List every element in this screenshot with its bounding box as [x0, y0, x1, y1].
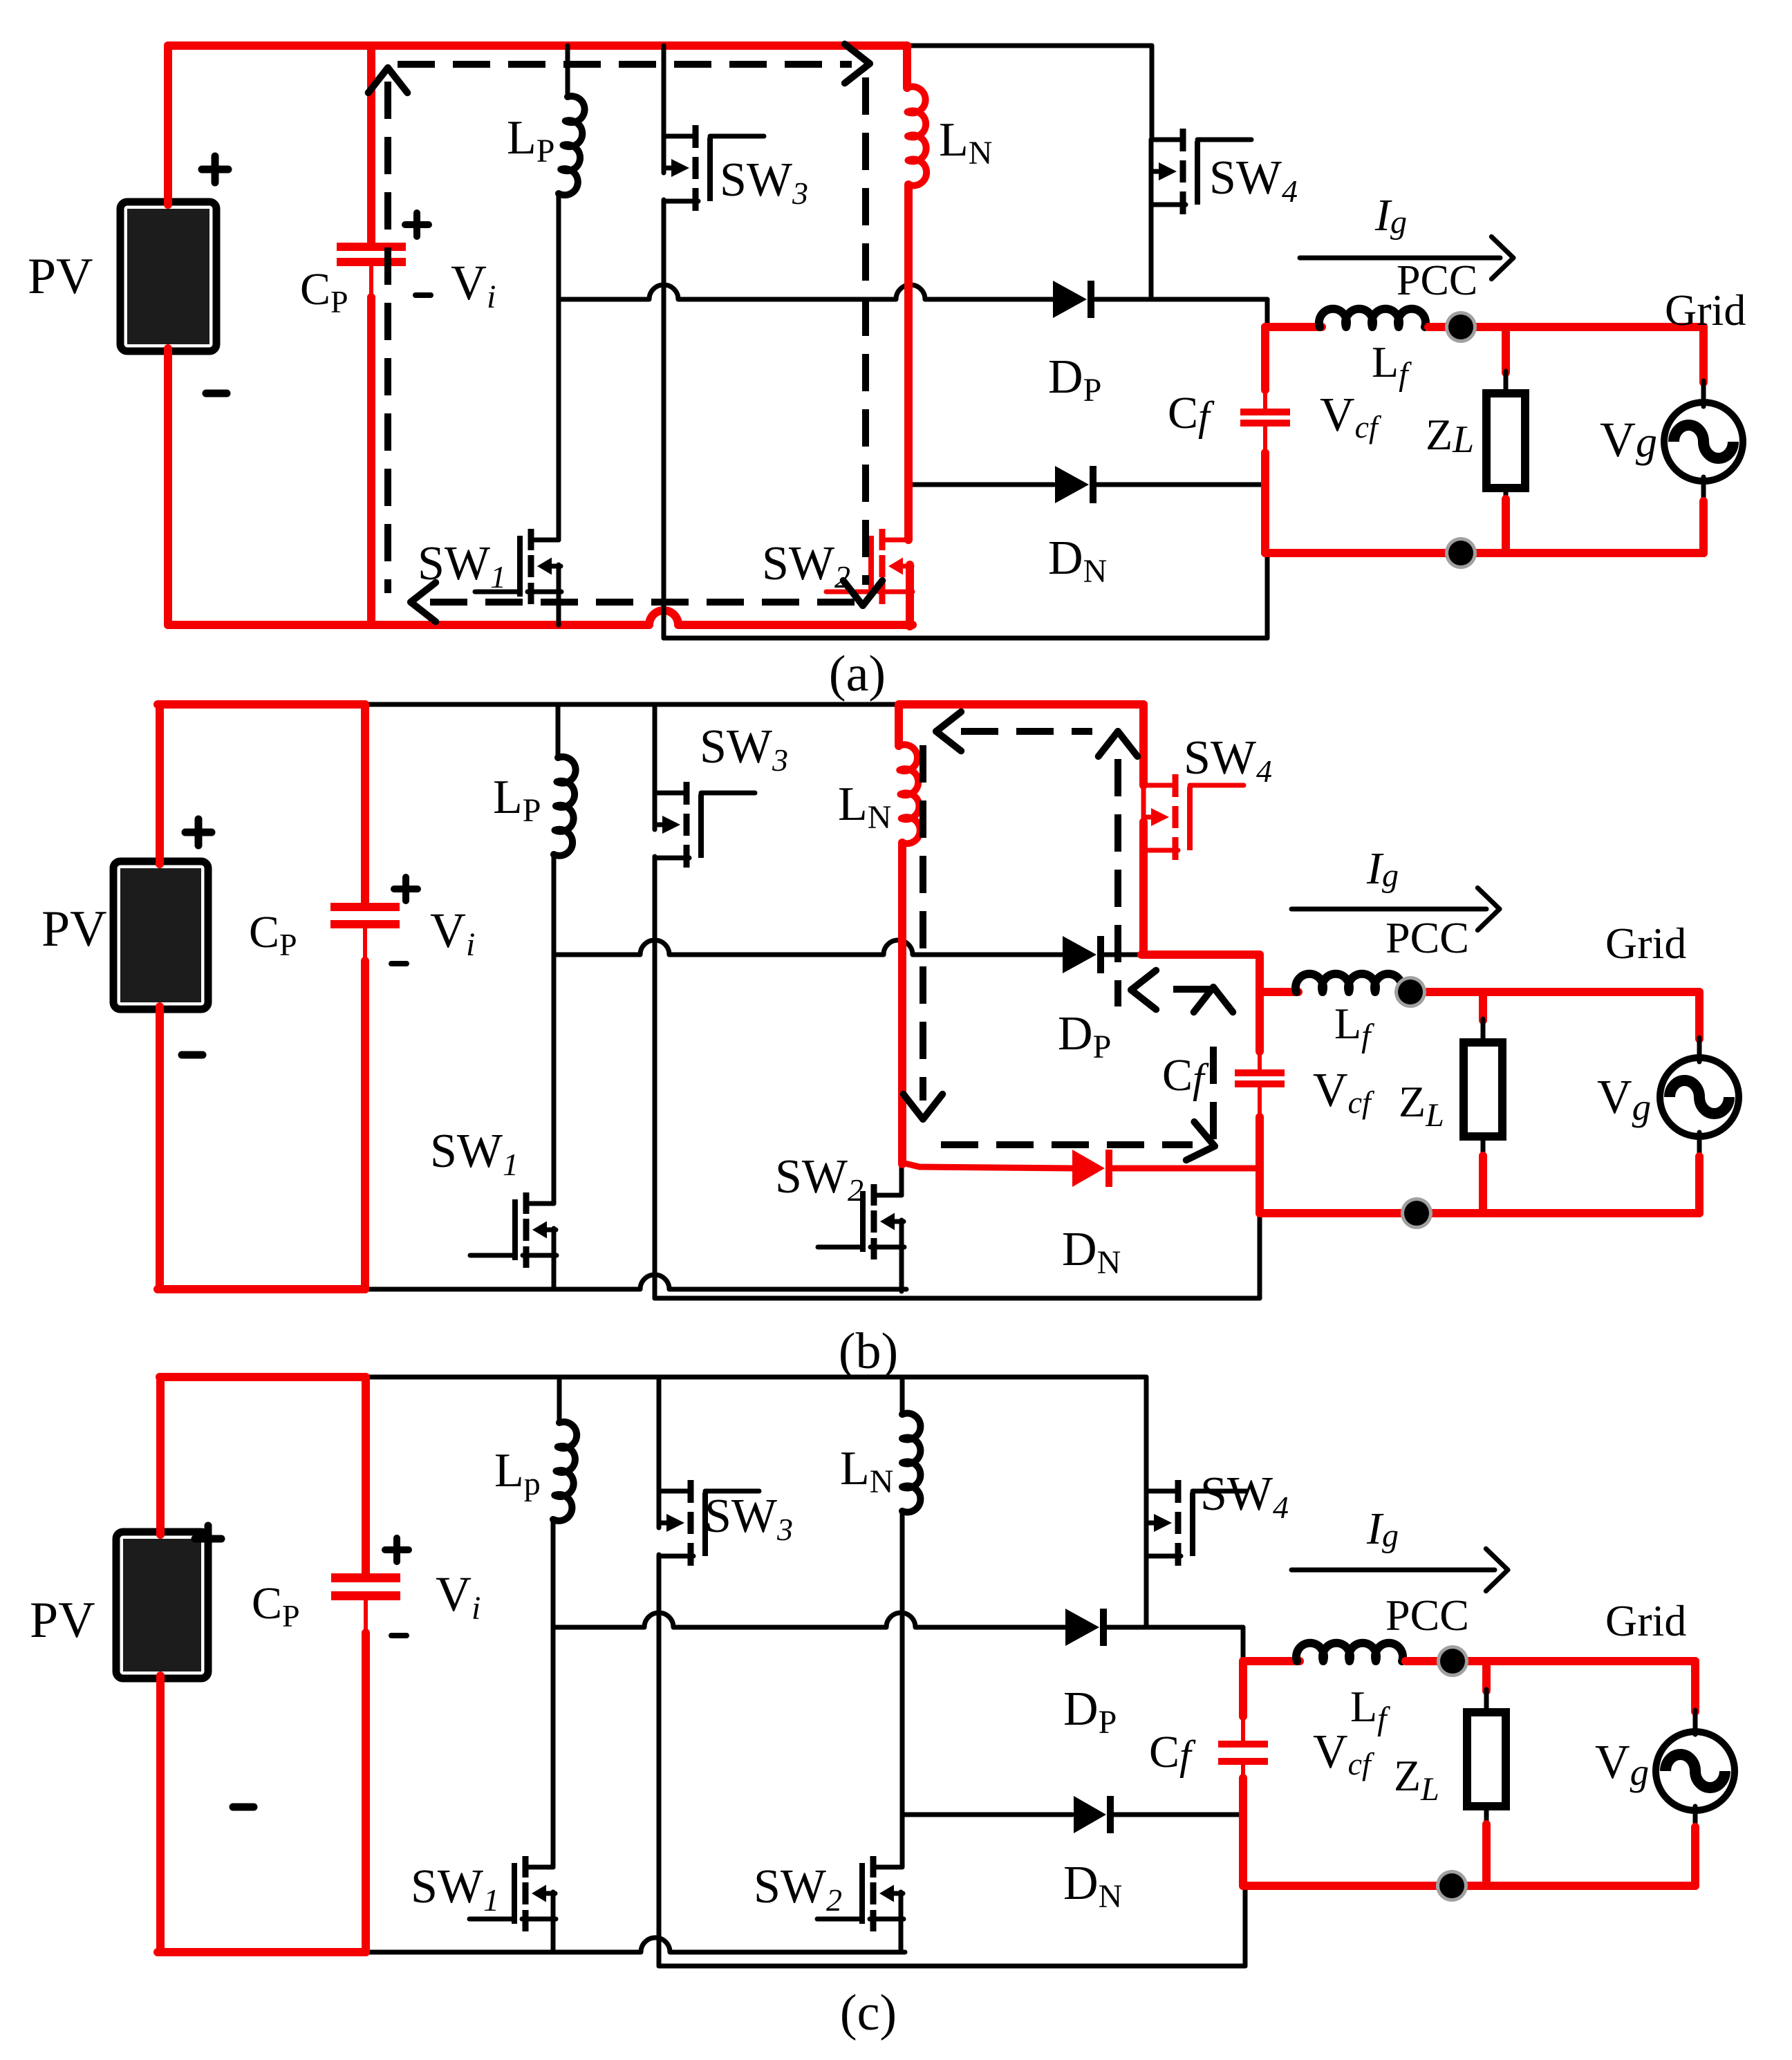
arrow Ig (b) — [1291, 907, 1486, 912]
capacitor CP (c) — [331, 1573, 400, 1582]
svg-text:Grid: Grid — [1665, 285, 1746, 335]
wire bottom loop red (b) — [1260, 1209, 1699, 1217]
capacitor CP lead lower (a) — [369, 264, 373, 299]
svg-text:Vg: Vg — [1600, 412, 1657, 467]
wire SW4 source (a) — [1149, 176, 1154, 299]
wire filter top red left (b) — [1260, 988, 1298, 996]
dashed loop left vertical (a) — [384, 82, 391, 593]
dashed arrow up right-loop (b) — [1118, 731, 1137, 756]
transistor SW1 (a) — [531, 538, 559, 543]
wire filter top red left (c) — [1243, 1657, 1300, 1665]
inductor LP (b) — [554, 757, 576, 856]
wire top rail red (c) — [160, 1373, 366, 1381]
source Vg (c) — [1656, 1732, 1735, 1810]
wire middle rail (b) — [554, 940, 1063, 955]
wire DN cathode red (b) — [1113, 1165, 1260, 1172]
wire top rail black (c) — [366, 1375, 1146, 1380]
wire SW3 source down (c) — [657, 1555, 662, 1966]
inductor Lp wire lower (c) — [551, 1519, 556, 1867]
dashed arrow left toward node (b) — [1131, 971, 1156, 990]
wire grid right edge upper red (b) — [1695, 992, 1704, 1039]
transistor SW2 (c) — [873, 1865, 901, 1870]
solar panel PV (b) — [113, 861, 208, 1009]
transistor SW2 red (a) — [882, 538, 910, 543]
wire Vg bottom stub (b) — [1697, 1132, 1702, 1158]
impedance ZL stub top (a) — [1502, 327, 1510, 373]
solar panel PV (a) — [120, 202, 216, 351]
impedance ZL (c) — [1467, 1712, 1506, 1806]
wire DP-SW4 to corner red (b) — [1141, 951, 1260, 959]
capacitor Cf lead upper (a) — [1261, 327, 1269, 390]
impedance ZL stub bottom (c) — [1484, 1806, 1489, 1826]
arrow Ig (a) — [1300, 256, 1500, 261]
transistor SW3 (a) — [664, 134, 696, 139]
svg-text:PV: PV — [41, 901, 107, 957]
wire top rail red LN-SW4 (b) — [899, 700, 1144, 709]
wire PV negative lead (a) — [164, 348, 172, 625]
inductor LP wire lower to SW1 (a) — [557, 194, 561, 540]
wire corner DP to filter (a) — [1265, 299, 1270, 330]
wire SW4 source red (b) — [1139, 822, 1148, 955]
dashed arrow down (b) — [904, 1094, 923, 1119]
node PCC dot (c) — [1437, 1645, 1468, 1677]
wire PV positive lead (a) — [164, 46, 172, 205]
svg-text:PCC: PCC — [1385, 913, 1469, 962]
wire middle rail (c) — [553, 1613, 1065, 1627]
transistor SW3 (b) — [655, 791, 687, 796]
svg-text:PCC: PCC — [1397, 257, 1477, 304]
wire SW3 drain (b) — [653, 704, 657, 793]
wire SW3 source down (b) — [653, 856, 657, 1298]
wire bottom rail red (c) — [158, 1948, 366, 1956]
svg-text:ZL: ZL — [1426, 410, 1474, 461]
svg-text:PV: PV — [30, 1592, 95, 1649]
wire Vg top stub (b) — [1697, 1038, 1702, 1062]
inductor LN (a) — [907, 86, 926, 185]
wire bottom loop red (c) — [1243, 1882, 1695, 1890]
wire grid right edge lower red (b) — [1695, 1157, 1704, 1213]
dashed arrow down (a) — [843, 581, 863, 606]
capacitor Cf lead upper (b) — [1256, 992, 1264, 1051]
inductor LN red wire upper (a) — [903, 46, 911, 88]
wire bottom rail black (b) — [365, 1275, 906, 1289]
label + Vi (a) — [405, 221, 429, 228]
inductor Lf (c) — [1296, 1643, 1403, 1661]
wire top rail black (b) — [365, 702, 899, 707]
wire SW2 drain vertical (b) — [899, 1160, 904, 1195]
dashed loop right vertical (a) — [862, 77, 869, 585]
impedance ZL stub top (b) — [1479, 992, 1487, 1020]
wire DN anode red sloped (b) — [902, 1163, 1072, 1168]
node bottom dot (b) — [1401, 1197, 1432, 1229]
svg-text:(a): (a) — [829, 646, 886, 702]
wire bottom rail black (c) — [366, 1938, 905, 1952]
transistor SW4 red (b) — [1144, 783, 1175, 788]
inductor LN (b) — [899, 745, 920, 843]
capacitor CP lead lower (c) — [364, 1598, 368, 1634]
label + Vi (b) — [394, 886, 418, 892]
inductor LP wire upper (b) — [556, 704, 561, 758]
wire LN down (c) — [900, 1511, 905, 1867]
capacitor Cf lead lower (c) — [1241, 1763, 1245, 1781]
wire filter top red right (b) — [1405, 988, 1699, 996]
impedance ZL stub bottom (a) — [1504, 488, 1509, 500]
wire SW2 source (b) — [899, 1220, 904, 1291]
impedance ZL stub top (c) — [1482, 1661, 1491, 1691]
wire Vg bottom stub (a) — [1701, 477, 1706, 503]
solar panel PV (c) — [116, 1532, 208, 1678]
svg-text:Grid: Grid — [1605, 919, 1686, 968]
wire top rail red PV-Cp (b) — [158, 700, 365, 709]
wire corner DP to filter (c) — [1241, 1627, 1246, 1658]
dashed right vertical short (b) — [1210, 1040, 1217, 1139]
inductor LN wire upper (c) — [900, 1377, 905, 1414]
arrow Ig (c) — [1291, 1568, 1495, 1573]
wire DN anode (c) — [902, 1813, 1072, 1817]
dashed bottom horizontal (b) — [941, 1141, 1193, 1148]
wire middle rail after DP (c) — [1108, 1625, 1243, 1630]
wire rail2 up to loop (c) — [1243, 1886, 1248, 1966]
transistor SW1 (b) — [526, 1201, 554, 1206]
wire bottom black rail2 (c) — [659, 1964, 1245, 1969]
label - PV (a) — [206, 390, 227, 397]
impedance ZL (b) — [1464, 1042, 1502, 1136]
dashed left vertical (b) — [920, 745, 926, 1101]
svg-text:Cf: Cf — [1162, 1050, 1209, 1101]
diode DP (b) — [1063, 936, 1096, 973]
dashed arrow up short (b) — [1213, 987, 1233, 1012]
inductor LN red upper (b) — [895, 704, 903, 746]
source Vg (b) — [1660, 1058, 1739, 1136]
wire DN anode stub (a) — [908, 484, 913, 514]
wire middle rail after DP (b) — [1105, 953, 1141, 957]
wire SW2 source (c) — [899, 1892, 904, 1952]
label - Vi (c) — [391, 1633, 407, 1638]
wire SW4 drain red (b) — [1139, 704, 1148, 785]
wire Vg top stub (c) — [1693, 1710, 1698, 1734]
inductor LP (a) — [559, 96, 585, 195]
capacitor CP (b) — [330, 903, 400, 911]
wire filter top red right (c) — [1406, 1657, 1695, 1665]
capacitor Cf lead lower (b) — [1258, 1086, 1262, 1120]
wire grid right edge upper red (a) — [1699, 327, 1708, 382]
label + PV (a) — [202, 166, 228, 174]
wire DN anode (a) — [910, 483, 1054, 487]
transistor SW3 (c) — [659, 1489, 691, 1494]
dashed loop top horizontal (a) — [398, 61, 852, 68]
dashed arrow right bottom (b) — [1186, 1146, 1215, 1160]
capacitor CP lead lower (b) — [363, 926, 367, 962]
label + Vi (c) — [385, 1546, 409, 1553]
wire SW3 drain (a) — [662, 46, 666, 136]
wire SW1 source (b) — [552, 1228, 557, 1289]
label + PV (c) — [195, 1535, 221, 1543]
wire DN cathode (c) — [1114, 1813, 1241, 1817]
wire top rail black to SW4 panel a — [906, 44, 1152, 48]
svg-text:Cf: Cf — [1149, 1727, 1196, 1778]
wire middle rail after DP (a) — [1095, 297, 1267, 302]
transistor SW2 (b) — [874, 1193, 902, 1198]
inductor Lf (a) — [1319, 309, 1426, 327]
wire SW2 source red (a) — [906, 565, 914, 626]
dashed top horizontal (b) — [961, 728, 1092, 735]
wire PV negative lead (b) — [156, 1006, 164, 1289]
node bottom dot (c) — [1436, 1870, 1468, 1902]
dashed loop bottom horizontal (a) — [430, 599, 859, 606]
wire DN cathode (a) — [1096, 483, 1266, 487]
wire PV positive lead (b) — [156, 704, 164, 864]
wire Vg top stub (a) — [1701, 381, 1706, 406]
wire PV negative lead (c) — [156, 1676, 165, 1952]
inductor LP wire lower (b) — [552, 854, 557, 1204]
dashed arrow left (a) — [411, 583, 436, 602]
svg-text:PV: PV — [28, 248, 93, 305]
wire bottom red rail (a) — [168, 610, 913, 625]
diode DP (a) — [1053, 281, 1087, 318]
label - Vi (b) — [391, 961, 407, 966]
capacitor Cf (c) — [1218, 1741, 1268, 1748]
label - Vi (a) — [416, 292, 431, 298]
wire LN to SW2 red (a) — [904, 185, 913, 540]
wire PV positive lead (c) — [156, 1377, 165, 1535]
dashed stub toward Cf (b) — [1173, 986, 1210, 993]
node bottom dot (a) — [1445, 537, 1477, 569]
dashed arrow left top (b) — [936, 712, 961, 731]
wire bottom black rail2 (b) — [655, 1296, 1260, 1301]
wire grid right edge upper red (c) — [1691, 1661, 1699, 1712]
wire middle rail Vi-node (a) — [559, 285, 1053, 299]
dashed right-loop vertical up (b) — [1114, 759, 1121, 1006]
inductor LN (c) — [902, 1414, 920, 1513]
label - PV (c) — [233, 1804, 254, 1811]
svg-text:Grid: Grid — [1605, 1596, 1686, 1645]
wire grid right edge lower red (a) — [1699, 501, 1708, 553]
transistor SW4 (c) — [1146, 1489, 1178, 1494]
wire Vg bottom stub (c) — [1693, 1806, 1698, 1828]
diode DN (a) — [1055, 466, 1089, 503]
capacitor CP lead upper (b) — [361, 704, 369, 905]
wire bottom black rail (a) — [664, 636, 1267, 641]
wire corner DN-return (a) — [1265, 553, 1270, 638]
wire corner down red (b) — [1256, 955, 1264, 996]
capacitor Cf lead lower (a) — [1263, 425, 1267, 456]
wire SW4 source (c) — [1144, 1528, 1149, 1627]
wire top rail red (PV+/Cp/Ln) panel a — [168, 41, 906, 50]
diode DN (c) — [1074, 1796, 1106, 1833]
wire SW1 source (c) — [551, 1892, 556, 1952]
wire SW1 source (a) — [557, 565, 561, 625]
svg-text:PCC: PCC — [1385, 1591, 1469, 1640]
wire SW4 drain (c) — [1144, 1377, 1149, 1491]
diode DP (c) — [1065, 1609, 1099, 1646]
capacitor CP lead upper (a) — [367, 46, 375, 245]
source Vg (a) — [1664, 402, 1743, 481]
diode DN red (b) — [1072, 1150, 1105, 1187]
transistor SW4 (a) — [1151, 138, 1183, 142]
wire filter top red left (a) — [1265, 323, 1322, 331]
inductor Lf (b) — [1296, 974, 1402, 992]
capacitor CP (a) — [337, 243, 406, 251]
capacitor Cf lead upper (c) — [1239, 1661, 1247, 1716]
node PCC dot (b) — [1394, 976, 1426, 1008]
wire SW3 source down (a) — [662, 200, 666, 638]
wire LN down red (b) — [898, 843, 906, 1164]
capacitor CP lead upper (c) — [362, 1377, 370, 1575]
label + PV (b) — [185, 829, 212, 836]
label - PV (b) — [182, 1051, 203, 1059]
impedance ZL (a) — [1486, 393, 1525, 488]
node PCC dot (a) — [1445, 311, 1477, 343]
wire SW3 drain (c) — [657, 1377, 662, 1491]
wire bottom rail red (b) — [158, 1285, 365, 1293]
svg-text:(c): (c) — [840, 1985, 897, 2041]
inductor Lp wire upper (c) — [557, 1377, 562, 1423]
impedance ZL stub bottom (b) — [1481, 1136, 1486, 1157]
dashed arrow right (a) — [845, 64, 870, 83]
wire filter top red right (a) — [1428, 323, 1704, 331]
wire grid right edge lower red (c) — [1691, 1827, 1699, 1886]
capacitor Cf (a) — [1240, 409, 1290, 415]
dashed arrow up (a) — [388, 68, 407, 93]
wire bottom loop red (a) — [1265, 549, 1704, 557]
inductor LP wire upper (a) — [566, 46, 570, 97]
transistor SW1 (c) — [525, 1865, 553, 1870]
wire rail2 up to loop (b) — [1258, 1213, 1262, 1298]
svg-text:(b): (b) — [839, 1323, 898, 1380]
svg-text:Cf: Cf — [1168, 388, 1215, 439]
inductor Lp (c) — [553, 1422, 577, 1521]
capacitor Cf (b) — [1235, 1069, 1285, 1076]
